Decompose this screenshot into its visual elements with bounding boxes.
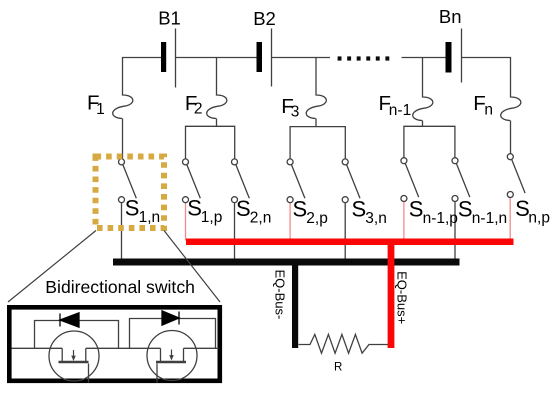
svg-text:n-1,n: n-1,n [472, 210, 507, 227]
svg-text:EQ-Bus-: EQ-Bus- [273, 270, 288, 320]
svg-text:S: S [293, 196, 308, 221]
svg-text:Bn: Bn [439, 6, 462, 27]
svg-text:S: S [125, 196, 140, 221]
svg-text:S: S [352, 196, 367, 221]
svg-text:B1: B1 [158, 8, 181, 29]
svg-text:S: S [409, 197, 424, 222]
svg-text:3: 3 [291, 103, 300, 120]
svg-text:1: 1 [96, 101, 105, 118]
svg-text:Bidirectional switch: Bidirectional switch [45, 277, 195, 297]
svg-text:S: S [236, 196, 251, 221]
svg-text:B2: B2 [253, 8, 276, 29]
svg-text:1,p: 1,p [201, 209, 223, 226]
svg-text:n,p: n,p [528, 210, 550, 227]
svg-text:2: 2 [194, 101, 203, 118]
svg-text:EQ-Bus+: EQ-Bus+ [395, 271, 410, 324]
svg-text:2,p: 2,p [306, 210, 328, 227]
svg-text:3,n: 3,n [365, 210, 387, 227]
svg-text:S: S [187, 196, 202, 221]
svg-text:R: R [334, 362, 342, 374]
svg-text:1,n: 1,n [139, 209, 161, 226]
svg-text:n-1,p: n-1,p [423, 210, 458, 227]
svg-text:n-1: n-1 [389, 102, 411, 119]
svg-text:2,n: 2,n [250, 209, 272, 226]
svg-text:n: n [484, 101, 493, 118]
svg-text:S: S [458, 196, 473, 221]
